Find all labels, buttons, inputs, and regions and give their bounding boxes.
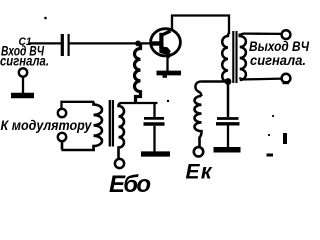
ground (C2)	[141, 151, 170, 156]
wire secondary bottom to output terminal	[240, 78, 282, 80]
scan speck	[272, 115, 274, 117]
modulator loop bottom wire	[62, 141, 96, 150]
svg-text:К модулятору: К модулятору	[1, 117, 93, 133]
transformer T2 core	[233, 31, 236, 83]
terminal Ек	[194, 147, 203, 156]
output terminal (top)	[282, 30, 291, 39]
transistor Q1	[151, 29, 181, 58]
node A (junction base wire / bias coil)	[135, 41, 141, 47]
modulator terminal (top)	[58, 109, 66, 117]
svg-text:Ек: Ек	[186, 161, 213, 184]
input terminal	[19, 68, 27, 76]
svg-text:Выход ВЧ: Выход ВЧ	[249, 38, 310, 54]
scan speck	[44, 17, 47, 20]
scan speck	[283, 133, 287, 144]
ground (emitter)	[157, 71, 182, 76]
transformer T2 primary (collector winding)	[222, 34, 228, 118]
wire input to C1	[29, 42, 61, 44]
ground (input)	[11, 93, 34, 99]
collector wire up and top rail	[172, 16, 229, 35]
terminal Ебо	[115, 159, 124, 168]
wire Ек rail	[195, 81, 228, 96]
inductor L2 (collector choke)	[194, 96, 201, 147]
wire secondary top to output terminal	[240, 34, 282, 36]
output terminal (bottom)	[282, 74, 291, 83]
scan speck	[268, 134, 270, 136]
transformer T2 secondary (output winding)	[240, 34, 246, 81]
modulator terminal (bottom)	[58, 133, 66, 141]
svg-text:сигнала.: сигнала.	[0, 54, 49, 69]
wire terminal to ground	[22, 77, 24, 93]
scan speck	[167, 100, 169, 102]
capacitor C3 (collector bypass)	[216, 119, 240, 148]
rail (L1 bottom / T1 top / C2 top)	[121, 102, 158, 104]
modulator loop top wire	[62, 102, 95, 109]
wire C1 to base	[69, 42, 156, 44]
emitter wire down	[166, 57, 168, 72]
transformer T1 secondary (RF winding, right)	[119, 103, 125, 159]
transformer T1 primary (modulator winding, left)	[94, 102, 103, 151]
svg-text:Ебо: Ебо	[109, 171, 151, 198]
node Ек junction	[225, 78, 232, 85]
inductor L1 (bias choke from node A)	[135, 44, 141, 103]
svg-text:сигнала.: сигнала.	[250, 53, 306, 68]
transformer T1 core	[110, 100, 113, 147]
capacitor C1	[62, 34, 68, 56]
ground (C3)	[214, 147, 241, 153]
capacitor C2 (emitter-side bypass)	[144, 103, 165, 152]
scan speck	[267, 154, 274, 157]
